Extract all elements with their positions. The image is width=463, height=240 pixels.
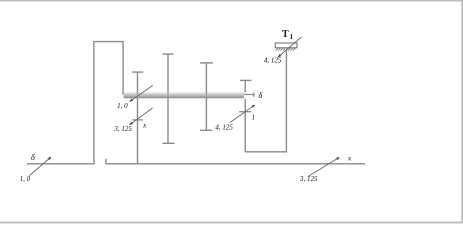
svg-text:4, 125: 4, 125 xyxy=(264,57,282,65)
arrow E (to pin P4 tick, value 4,125) xyxy=(230,105,255,123)
label x (ground right) xyxy=(347,154,352,163)
label 3,125 (ground right) xyxy=(299,175,318,183)
pin P3 stub through beam xyxy=(205,92,207,94)
beam end tick xyxy=(253,93,255,97)
svg-text:1: 1 xyxy=(252,113,256,121)
pin P2 (second T-line) xyxy=(162,54,174,143)
frame right border xyxy=(461,0,463,224)
pin P3 (third T-line) xyxy=(200,63,213,130)
support T1 bar xyxy=(275,43,297,48)
frame top border xyxy=(0,0,463,2)
label 1 (pin P4) xyxy=(252,113,256,121)
label delta (beam end) xyxy=(258,90,263,100)
svg-text:1: 1 xyxy=(290,33,294,41)
label 1,0 (beam) xyxy=(117,102,128,110)
arrow C (ground left axis) xyxy=(29,157,51,176)
svg-text:1, 0: 1, 0 xyxy=(20,175,31,183)
ground line left segment xyxy=(27,163,95,165)
beam end extension line xyxy=(244,94,254,96)
label 1,0 (ground left) xyxy=(20,175,31,183)
ground line right segment xyxy=(106,159,365,164)
pin P1 (first T-line) xyxy=(132,72,143,164)
svg-text:δ: δ xyxy=(258,90,263,100)
pin P4 (fourth T-line) xyxy=(240,80,252,151)
svg-text:δ: δ xyxy=(31,152,36,162)
label 3,125 (pin P1) xyxy=(113,125,132,133)
support T1 hatching xyxy=(276,48,296,51)
arrow B (to pin P1 tick, value 3,125) xyxy=(130,108,153,125)
beam (shaded bar) xyxy=(124,92,254,98)
frame bottom border xyxy=(0,222,463,224)
svg-text:4, 125: 4, 125 xyxy=(215,124,233,132)
label 4,125 (pin P3) xyxy=(215,124,233,132)
arrow F (to support T1, value 4,125) xyxy=(278,37,301,57)
label 4,125 (support) xyxy=(264,57,282,65)
pin P2 stub through beam xyxy=(167,92,169,94)
arrow D (ground right axis x) xyxy=(308,157,339,176)
svg-text:T: T xyxy=(282,29,289,40)
U bracket (right) xyxy=(245,50,286,152)
tick on pin P4 xyxy=(239,111,251,113)
svg-text:3, 125: 3, 125 xyxy=(299,175,318,183)
svg-text:3, 125: 3, 125 xyxy=(113,125,132,133)
pin P1 stub through beam xyxy=(137,92,139,94)
svg-text:1, 0: 1, 0 xyxy=(117,102,128,110)
svg-text:x: x xyxy=(142,121,147,130)
wall column (left tall rectangle) xyxy=(94,42,123,165)
label delta (ground left) xyxy=(31,152,36,162)
tick on pin P1 xyxy=(132,119,143,121)
label x (pin P1 axis) xyxy=(142,121,147,130)
svg-text:x: x xyxy=(347,154,352,163)
label T1 xyxy=(282,29,294,41)
arrow A (to beam left, value 1,0) xyxy=(130,85,153,101)
